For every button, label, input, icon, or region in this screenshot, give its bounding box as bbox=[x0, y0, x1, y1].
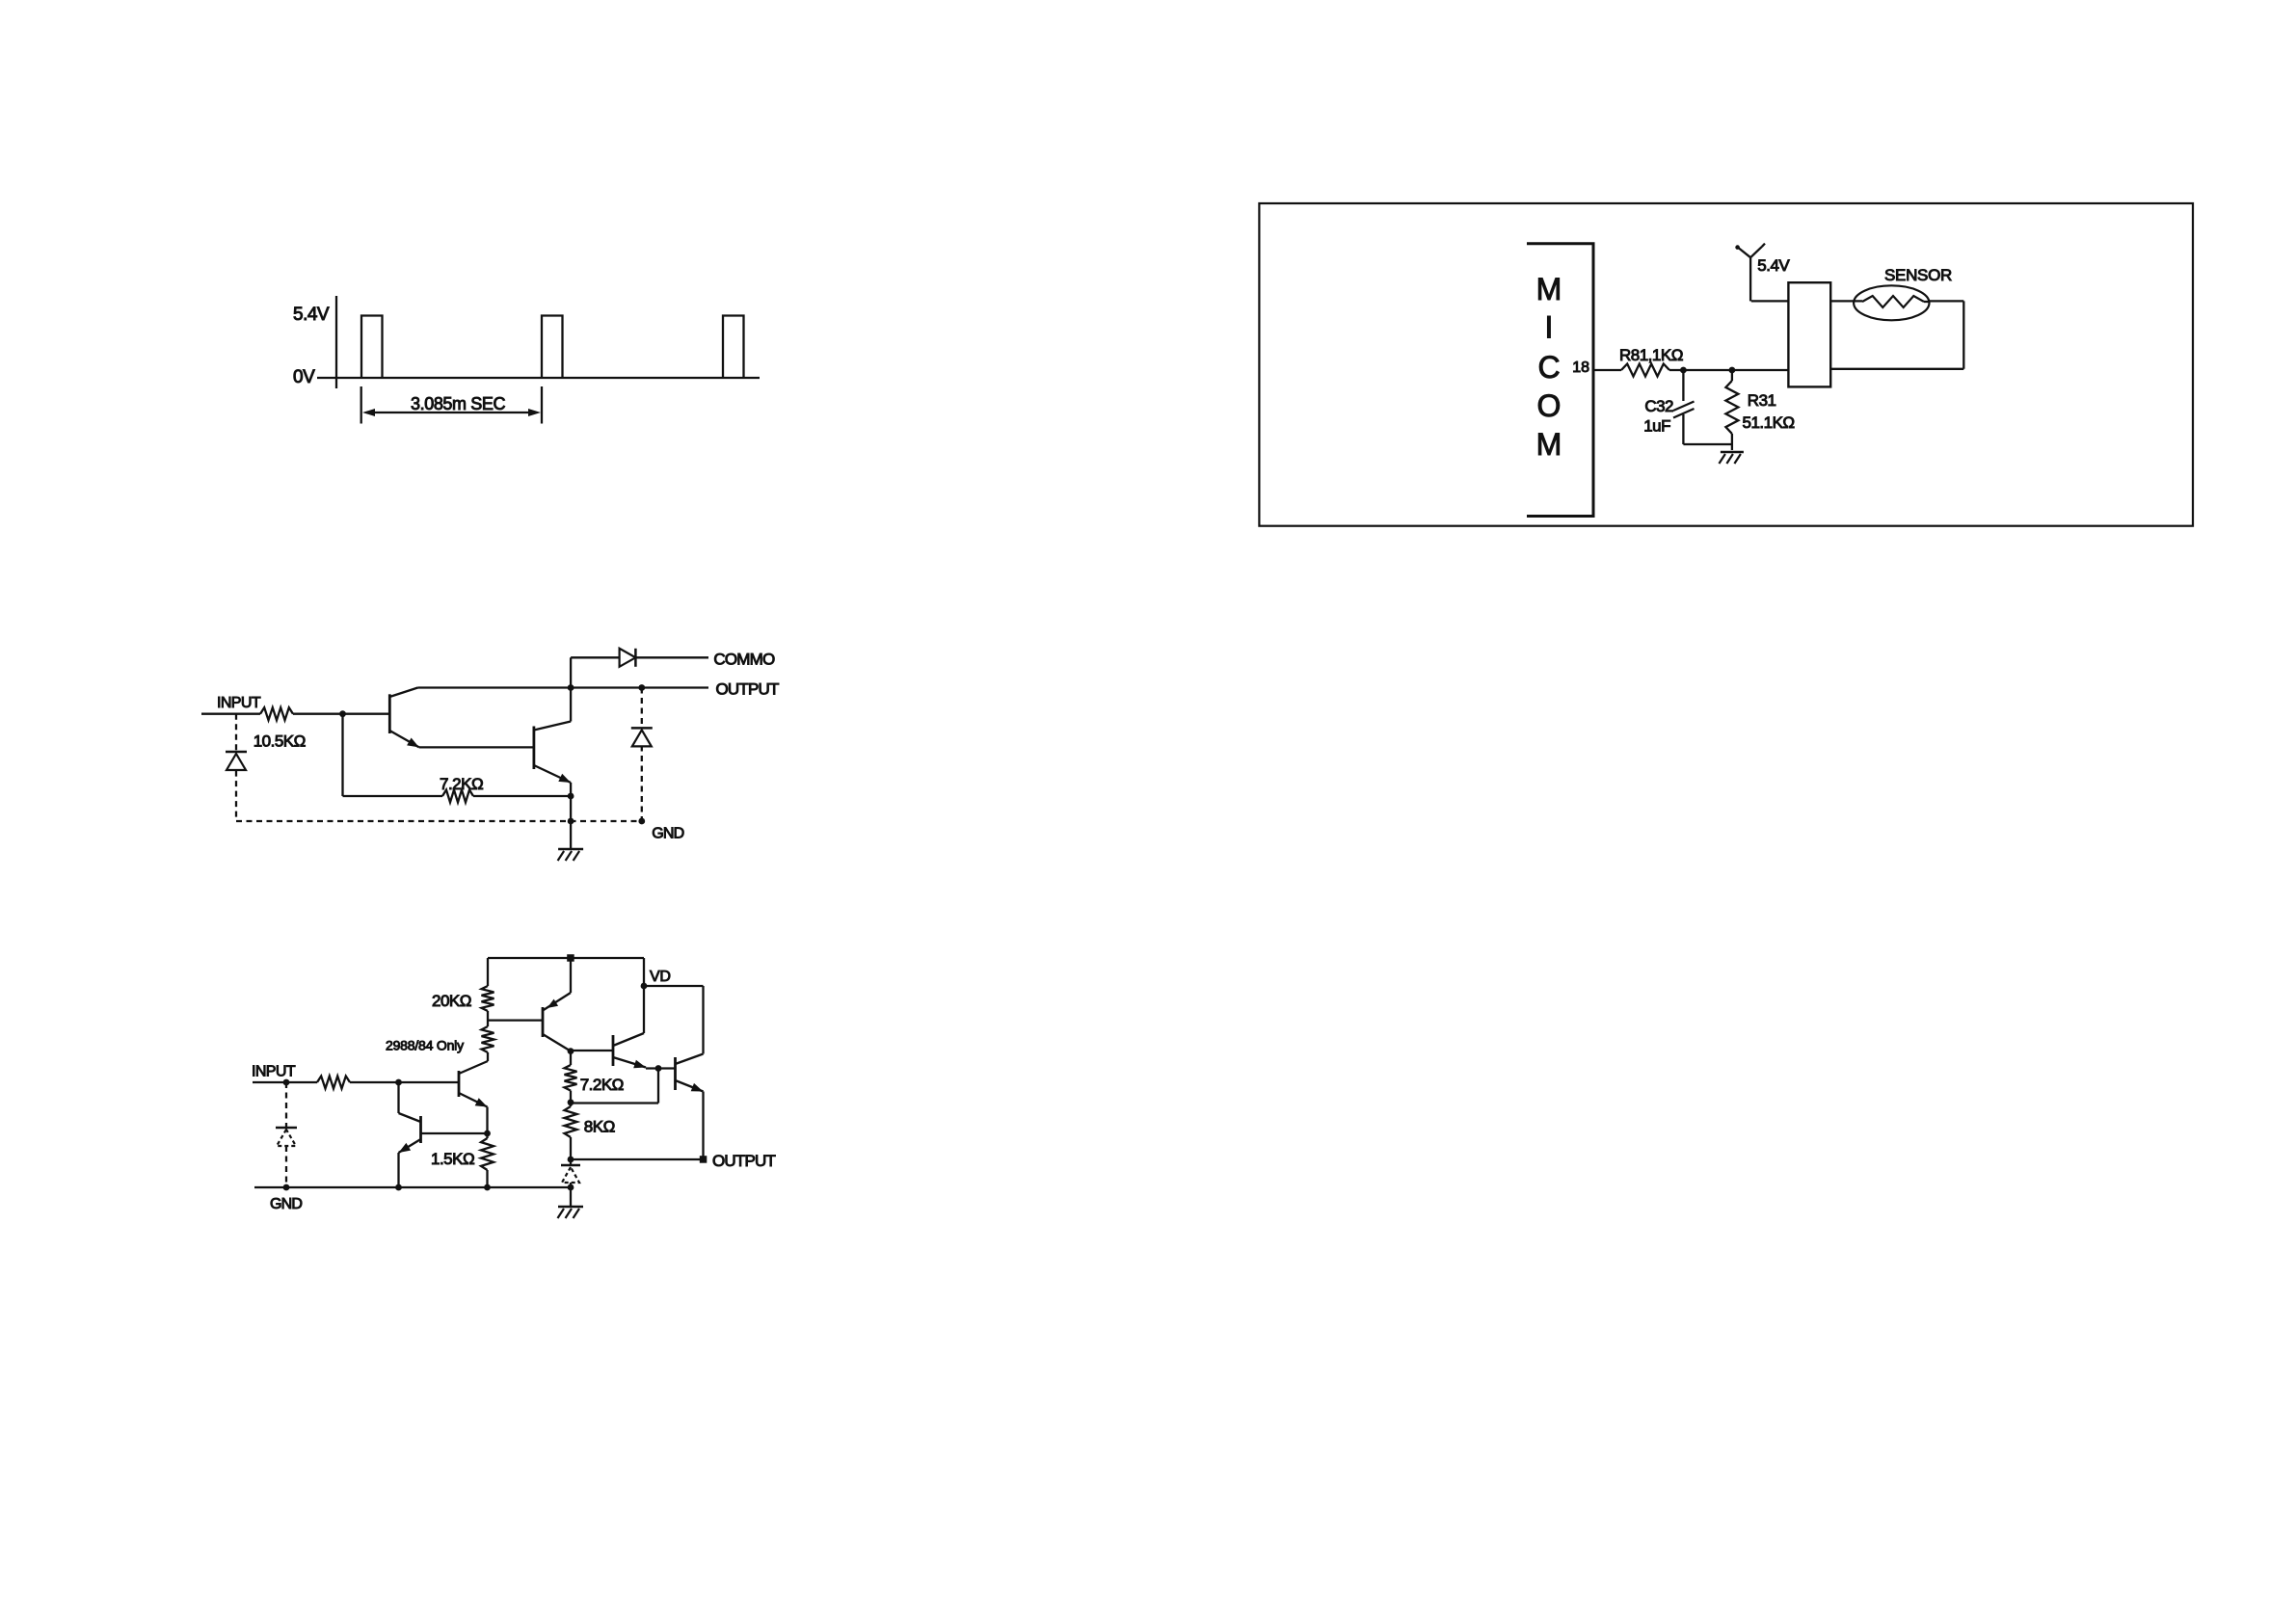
svg-text:1.5KΩ: 1.5KΩ bbox=[431, 1150, 474, 1168]
svg-text:VD: VD bbox=[650, 969, 671, 985]
svg-text:7.2KΩ: 7.2KΩ bbox=[580, 1076, 624, 1094]
svg-text:1uF: 1uF bbox=[1643, 417, 1670, 436]
svg-text:C: C bbox=[1537, 350, 1560, 385]
svg-text:8KΩ: 8KΩ bbox=[584, 1118, 615, 1136]
svg-text:M: M bbox=[1536, 272, 1562, 306]
svg-text:SENSOR: SENSOR bbox=[1884, 266, 1952, 284]
svg-text:GND: GND bbox=[652, 826, 683, 842]
svg-text:5.4V: 5.4V bbox=[1757, 256, 1790, 275]
svg-text:51.1KΩ: 51.1KΩ bbox=[1743, 413, 1795, 432]
svg-text:3.085m SEC: 3.085m SEC bbox=[411, 394, 505, 413]
svg-text:I: I bbox=[1545, 310, 1554, 345]
svg-text:20KΩ: 20KΩ bbox=[432, 992, 471, 1010]
svg-text:INPUT: INPUT bbox=[252, 1064, 296, 1080]
svg-text:OUTPUT: OUTPUT bbox=[716, 680, 780, 699]
svg-text:5.4V: 5.4V bbox=[293, 305, 330, 325]
svg-text:INPUT: INPUT bbox=[217, 695, 261, 711]
svg-text:0V: 0V bbox=[293, 367, 315, 387]
svg-text:OUTPUT: OUTPUT bbox=[712, 1152, 776, 1170]
svg-text:2988/84 Only: 2988/84 Only bbox=[386, 1038, 464, 1053]
svg-text:18: 18 bbox=[1572, 359, 1589, 376]
svg-text:COMMO: COMMO bbox=[713, 651, 775, 669]
svg-text:C32: C32 bbox=[1644, 397, 1673, 415]
svg-text:R31: R31 bbox=[1748, 391, 1776, 410]
svg-text:GND: GND bbox=[270, 1196, 302, 1212]
svg-text:7.2KΩ: 7.2KΩ bbox=[440, 775, 483, 793]
svg-text:R81,1KΩ: R81,1KΩ bbox=[1619, 346, 1683, 364]
svg-text:O: O bbox=[1537, 388, 1562, 423]
svg-text:M: M bbox=[1536, 427, 1562, 462]
svg-text:10.5KΩ: 10.5KΩ bbox=[254, 732, 306, 751]
